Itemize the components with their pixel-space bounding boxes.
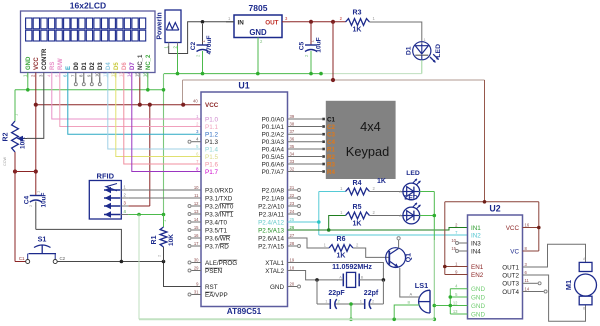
svg-text:NC_2: NC_2 [146, 54, 152, 70]
svg-text:Q1: Q1 [406, 253, 413, 262]
svg-text:C1: C1 [19, 256, 25, 261]
U2 right pins [502, 222, 547, 295]
svg-text:P1.7: P1.7 [205, 169, 218, 176]
svg-text:10: 10 [95, 72, 100, 77]
wire P2.4 to R4 and U2 IN2 [288, 192, 468, 236]
wire R5 to LED [370, 215, 404, 217]
svg-text:P1.6: P1.6 [205, 161, 218, 168]
connector RFID [89, 172, 128, 220]
svg-text:R1: R1 [327, 146, 335, 153]
wire U2 GND bus [434, 289, 452, 314]
svg-text:13: 13 [194, 209, 199, 214]
wires U1 P0 to keypad [288, 119, 323, 172]
microcontroller U1 AT89C51 box [201, 81, 288, 317]
wire RFID pin1 to P3.0 [128, 189, 201, 191]
pushbutton S1 [19, 235, 66, 264]
svg-text:P1.5: P1.5 [205, 154, 218, 161]
svg-text:14: 14 [525, 286, 530, 291]
wire R6 to Q1 base [353, 248, 389, 257]
svg-text:31: 31 [194, 289, 199, 294]
svg-text:15: 15 [194, 225, 199, 230]
connector PowerIn [157, 10, 182, 49]
wire LED cathodes ground [419, 192, 436, 322]
svg-text:P0.6/A6: P0.6/A6 [262, 161, 285, 168]
svg-text:IN1: IN1 [471, 225, 481, 232]
svg-text:16: 16 [194, 233, 199, 238]
svg-text:P3.6/WR: P3.6/WR [205, 235, 231, 242]
svg-text:P0.0/A0: P0.0/A0 [262, 116, 285, 123]
svg-text:37: 37 [290, 129, 295, 134]
svg-text:P3.5/T1: P3.5/T1 [205, 227, 228, 234]
svg-text:OUT1: OUT1 [502, 264, 519, 271]
svg-text:R1: R1 [151, 235, 158, 244]
svg-text:11.0592MHz: 11.0592MHz [332, 263, 372, 271]
svg-text:EN2: EN2 [471, 272, 484, 279]
wire C5 to ground rail [310, 58, 312, 74]
svg-text:22: 22 [290, 193, 295, 198]
svg-text:IN2: IN2 [471, 232, 481, 239]
ground rail upper [164, 72, 422, 76]
potentiometer R2 10K [3, 113, 28, 166]
svg-text:D0: D0 [74, 62, 80, 70]
svg-text:12: 12 [453, 300, 458, 305]
svg-text:R/W: R/W [58, 58, 64, 70]
svg-text:R2: R2 [3, 132, 10, 141]
wire 7805 OUT net [290, 20, 346, 24]
svg-text:7805: 7805 [249, 3, 268, 13]
svg-text:21: 21 [290, 185, 295, 190]
svg-text:P2.4/A12: P2.4/A12 [258, 219, 284, 226]
svg-text:P2.5/A13: P2.5/A13 [258, 227, 284, 234]
svg-text:A: A [410, 292, 413, 297]
svg-text:11: 11 [525, 278, 530, 283]
LED D2 [399, 170, 420, 200]
svg-text:P0.5/A5: P0.5/A5 [262, 154, 285, 161]
resistor R6 1K [324, 236, 359, 260]
svg-text:P3.3/INT1: P3.3/INT1 [205, 211, 234, 218]
svg-text:A: A [399, 214, 402, 218]
svg-text:16: 16 [143, 72, 148, 77]
svg-text:GND: GND [26, 56, 32, 70]
svg-text:GND: GND [270, 284, 284, 291]
svg-text:P2.7/A15: P2.7/A15 [258, 243, 284, 250]
svg-text:OUT: OUT [265, 19, 278, 26]
svg-text:P2.0/A8: P2.0/A8 [262, 187, 285, 194]
svg-text:10uF: 10uF [316, 37, 323, 52]
svg-text:P2.1/A9: P2.1/A9 [262, 195, 285, 202]
svg-text:VCC: VCC [205, 102, 219, 109]
svg-text:34: 34 [290, 151, 295, 156]
svg-text:R2: R2 [327, 154, 335, 161]
capacitor C2 470uF [190, 24, 213, 60]
svg-text:C4: C4 [24, 195, 31, 204]
svg-text:39: 39 [290, 114, 295, 119]
svg-text:P0.3/A3: P0.3/A3 [262, 139, 285, 146]
svg-text:470uF: 470uF [206, 35, 213, 54]
svg-text:19: 19 [290, 257, 295, 262]
svg-text:32: 32 [290, 166, 295, 171]
wire C2 to ground rail [202, 58, 204, 74]
svg-text:P3.1/TXD: P3.1/TXD [205, 195, 233, 202]
svg-text:LS1: LS1 [415, 281, 428, 290]
svg-text:GND: GND [471, 303, 485, 310]
resistor R3 1K [340, 10, 376, 34]
VCC rail to U1 and LCD [34, 78, 201, 207]
svg-text:PowerIn: PowerIn [157, 12, 164, 39]
capacitor C7 22pf [351, 280, 383, 309]
svg-text:R3: R3 [353, 10, 362, 17]
wire ground drop to bottom rail [138, 215, 140, 320]
svg-text:1K: 1K [353, 27, 362, 34]
wire 7805 GND to ground rail [257, 44, 259, 74]
svg-text:22pf: 22pf [364, 290, 379, 297]
svg-text:RST: RST [205, 284, 218, 291]
resistor R5 1K [340, 204, 375, 228]
svg-text:XTAL1: XTAL1 [265, 260, 284, 267]
svg-text:P2.3/A11: P2.3/A11 [259, 211, 285, 218]
svg-text:R3: R3 [327, 161, 335, 168]
svg-text:36: 36 [290, 137, 295, 142]
U1 right pins [258, 114, 300, 291]
wire XTAL1 to crystal [288, 263, 384, 280]
U2 left pins [450, 222, 485, 318]
motor M1 [564, 257, 597, 311]
svg-text:U2: U2 [489, 204, 500, 214]
svg-text:20: 20 [290, 281, 295, 286]
wire VCC to U2 and enables [443, 200, 541, 275]
svg-text:B: B [361, 276, 364, 280]
svg-text:13: 13 [119, 72, 124, 77]
svg-text:P1.4: P1.4 [205, 146, 218, 153]
wire Q1 emitter to LS1 [400, 268, 417, 297]
wire R4 to LED [370, 191, 404, 193]
svg-text:10K: 10K [168, 234, 175, 246]
svg-text:C5: C5 [299, 41, 306, 50]
svg-text:GND: GND [471, 294, 485, 301]
svg-text:D4: D4 [106, 62, 112, 70]
wire crystal caps ground [349, 302, 353, 321]
svg-text:IN4: IN4 [471, 248, 481, 255]
wire VCC to S1 [15, 157, 26, 262]
wire CONTR to R2 wiper [27, 78, 44, 139]
svg-text:P3.7/RD: P3.7/RD [205, 243, 229, 250]
svg-text:Keypad: Keypad [346, 144, 389, 159]
resistor R1 10K [151, 215, 175, 262]
svg-text:16x2LCD: 16x2LCD [70, 1, 106, 11]
svg-text:GND: GND [249, 28, 267, 37]
svg-text:28: 28 [290, 241, 295, 246]
ground rail bottom [139, 318, 434, 322]
svg-text:E: E [66, 66, 72, 70]
resistor R4 1K [340, 178, 386, 195]
LED D3 [399, 195, 420, 224]
node C2 top junction [201, 20, 205, 24]
svg-text:RS: RS [50, 62, 56, 70]
wire RFID pin4 ground line [128, 213, 165, 217]
svg-text:P3.0/RXD: P3.0/RXD [205, 187, 233, 194]
svg-text:M1: M1 [564, 280, 573, 290]
wire P2.5 to R5 and U2 IN1 [288, 216, 468, 232]
svg-text:GND: GND [471, 286, 485, 293]
svg-text:10: 10 [451, 238, 456, 243]
svg-text:R4: R4 [327, 169, 335, 176]
svg-text:10K: 10K [20, 137, 27, 149]
svg-text:27: 27 [290, 233, 295, 238]
svg-text:12: 12 [111, 72, 116, 77]
svg-text:OUT3: OUT3 [502, 281, 519, 288]
svg-text:D1: D1 [406, 46, 413, 55]
svg-text:LED: LED [406, 170, 420, 177]
U1 left pins [188, 102, 237, 299]
wire P2.6 to R6 [288, 238, 330, 248]
svg-text:U1: U1 [238, 81, 249, 91]
svg-text:D3: D3 [98, 62, 104, 70]
svg-text:29: 29 [194, 265, 199, 270]
svg-text:35: 35 [290, 144, 295, 149]
svg-text:C1: C1 [327, 116, 335, 123]
svg-text:LED: LED [404, 195, 418, 202]
svg-text:P1.1: P1.1 [205, 124, 218, 131]
svg-text:22pF: 22pF [328, 290, 345, 297]
svg-text:VCC: VCC [506, 225, 520, 232]
svg-text:1K: 1K [353, 221, 362, 228]
svg-text:P2.2/A10: P2.2/A10 [258, 203, 284, 210]
svg-text:1K: 1K [337, 253, 346, 260]
svg-text:OUT2: OUT2 [502, 272, 519, 279]
svg-text:P0.1/A1: P0.1/A1 [262, 124, 285, 131]
svg-text:XTAL2: XTAL2 [265, 268, 284, 275]
svg-text:P0.7/A7: P0.7/A7 [262, 169, 285, 176]
svg-text:25: 25 [290, 217, 295, 222]
svg-text:AT89C51: AT89C51 [227, 307, 262, 316]
transistor Q1 [386, 237, 413, 268]
svg-text:10: 10 [194, 185, 199, 190]
svg-text:15: 15 [451, 246, 456, 251]
svg-text:LED: LED [435, 44, 442, 58]
driver U2 box [468, 204, 523, 319]
svg-text:P3.4/T0: P3.4/T0 [205, 219, 228, 226]
svg-text:24: 24 [290, 209, 295, 214]
svg-text:VC: VC [510, 248, 519, 255]
svg-text:38: 38 [290, 121, 295, 126]
svg-text:P1.0: P1.0 [205, 116, 218, 123]
speaker LS1 [405, 281, 430, 313]
svg-text:14: 14 [194, 217, 199, 222]
svg-text:IN: IN [238, 19, 245, 26]
svg-text:PSEN: PSEN [205, 268, 223, 275]
wire XTAL2 to crystal [288, 271, 318, 280]
LCD signal wires to U1 port1 [52, 78, 201, 172]
svg-text:A: A [339, 276, 342, 280]
svg-text:26: 26 [290, 225, 295, 230]
svg-text:P3.2/INT0: P3.2/INT0 [205, 203, 234, 210]
svg-text:B: B [408, 300, 411, 305]
svg-text:RFID: RFID [97, 172, 115, 181]
svg-text:23: 23 [290, 201, 295, 206]
svg-text:IN3: IN3 [471, 240, 481, 247]
VCC rail [183, 22, 485, 105]
LCD pin labels and stubs [23, 48, 153, 77]
svg-text:15: 15 [135, 72, 140, 77]
svg-text:C2: C2 [60, 256, 66, 261]
wire C4 to reset net [36, 229, 122, 261]
wire R3 to D1 [370, 22, 422, 44]
regulator U3 7805 [226, 3, 290, 44]
svg-text:14: 14 [127, 72, 132, 77]
keypad 4x4 KEYPAD1 [322, 101, 395, 179]
svg-text:13: 13 [453, 309, 458, 314]
svg-text:CCW: CCW [3, 157, 7, 166]
svg-text:EA/VPP: EA/VPP [205, 292, 228, 299]
svg-text:P0.4/A4: P0.4/A4 [262, 146, 285, 153]
wire OUT1 to M1 [523, 244, 586, 267]
wire PowerIn GND [177, 46, 179, 74]
svg-text:D6: D6 [122, 62, 128, 70]
svg-text:NC_1: NC_1 [138, 54, 144, 70]
svg-text:18: 18 [290, 265, 295, 270]
svg-text:11: 11 [103, 72, 108, 77]
LCD D0-D3 open pins [74, 78, 101, 86]
wire D1 cathode to ground rail [421, 60, 423, 74]
svg-text:S1: S1 [38, 235, 47, 244]
svg-text:C4: C4 [327, 139, 335, 146]
svg-text:VCC: VCC [34, 57, 40, 70]
ground rail left [15, 74, 165, 215]
capacitor C4 10uF [13, 169, 48, 229]
svg-text:D2: D2 [90, 62, 96, 70]
svg-text:17: 17 [194, 241, 199, 246]
capacitor C6 22pF [317, 280, 351, 309]
svg-text:16: 16 [525, 222, 530, 227]
wire PowerIn to 7805 IN [169, 22, 234, 54]
svg-text:10uF: 10uF [41, 192, 48, 207]
svg-text:GND: GND [471, 311, 485, 318]
LED D1 [406, 37, 443, 63]
svg-text:P1.3: P1.3 [205, 139, 218, 146]
svg-text:D1: D1 [82, 62, 88, 70]
wire VCC to U2 riser [484, 80, 486, 202]
LCD display LCD1 16x2LCD [21, 1, 156, 73]
svg-text:30: 30 [194, 257, 199, 262]
svg-text:ALE/PROG: ALE/PROG [205, 260, 237, 267]
wire LS1 to ground [394, 305, 405, 319]
svg-text:C2: C2 [190, 41, 197, 50]
svg-text:OUT4: OUT4 [502, 289, 519, 296]
svg-text:C3: C3 [327, 132, 335, 139]
svg-text:R4: R4 [353, 180, 362, 187]
svg-text:R5: R5 [353, 204, 362, 211]
svg-text:4x4: 4x4 [360, 119, 381, 134]
wire OUT2 to M1 [523, 275, 586, 321]
svg-text:CONTR: CONTR [42, 48, 48, 70]
wire S1 to RST [57, 262, 201, 287]
wire RFID pin2 to P3.1 [128, 197, 201, 199]
capacitor C5 10uF [299, 24, 323, 60]
svg-text:P2.6/A14: P2.6/A14 [258, 235, 284, 242]
svg-text:40: 40 [193, 99, 198, 104]
svg-text:1K: 1K [377, 178, 386, 185]
svg-text:EN1: EN1 [471, 264, 484, 271]
svg-text:33: 33 [290, 159, 295, 164]
svg-text:P1.2: P1.2 [205, 132, 218, 139]
svg-text:R6: R6 [337, 236, 346, 243]
svg-text:C2: C2 [327, 124, 335, 131]
node reset junctions [120, 260, 166, 264]
svg-text:P0.2/A2: P0.2/A2 [262, 132, 285, 139]
svg-text:11: 11 [194, 193, 199, 198]
svg-text:A: A [399, 190, 402, 194]
svg-text:D5: D5 [114, 62, 120, 70]
svg-text:D7: D7 [130, 62, 136, 70]
svg-text:12: 12 [194, 201, 199, 206]
crystal X1 11.0592MHz [315, 263, 385, 287]
